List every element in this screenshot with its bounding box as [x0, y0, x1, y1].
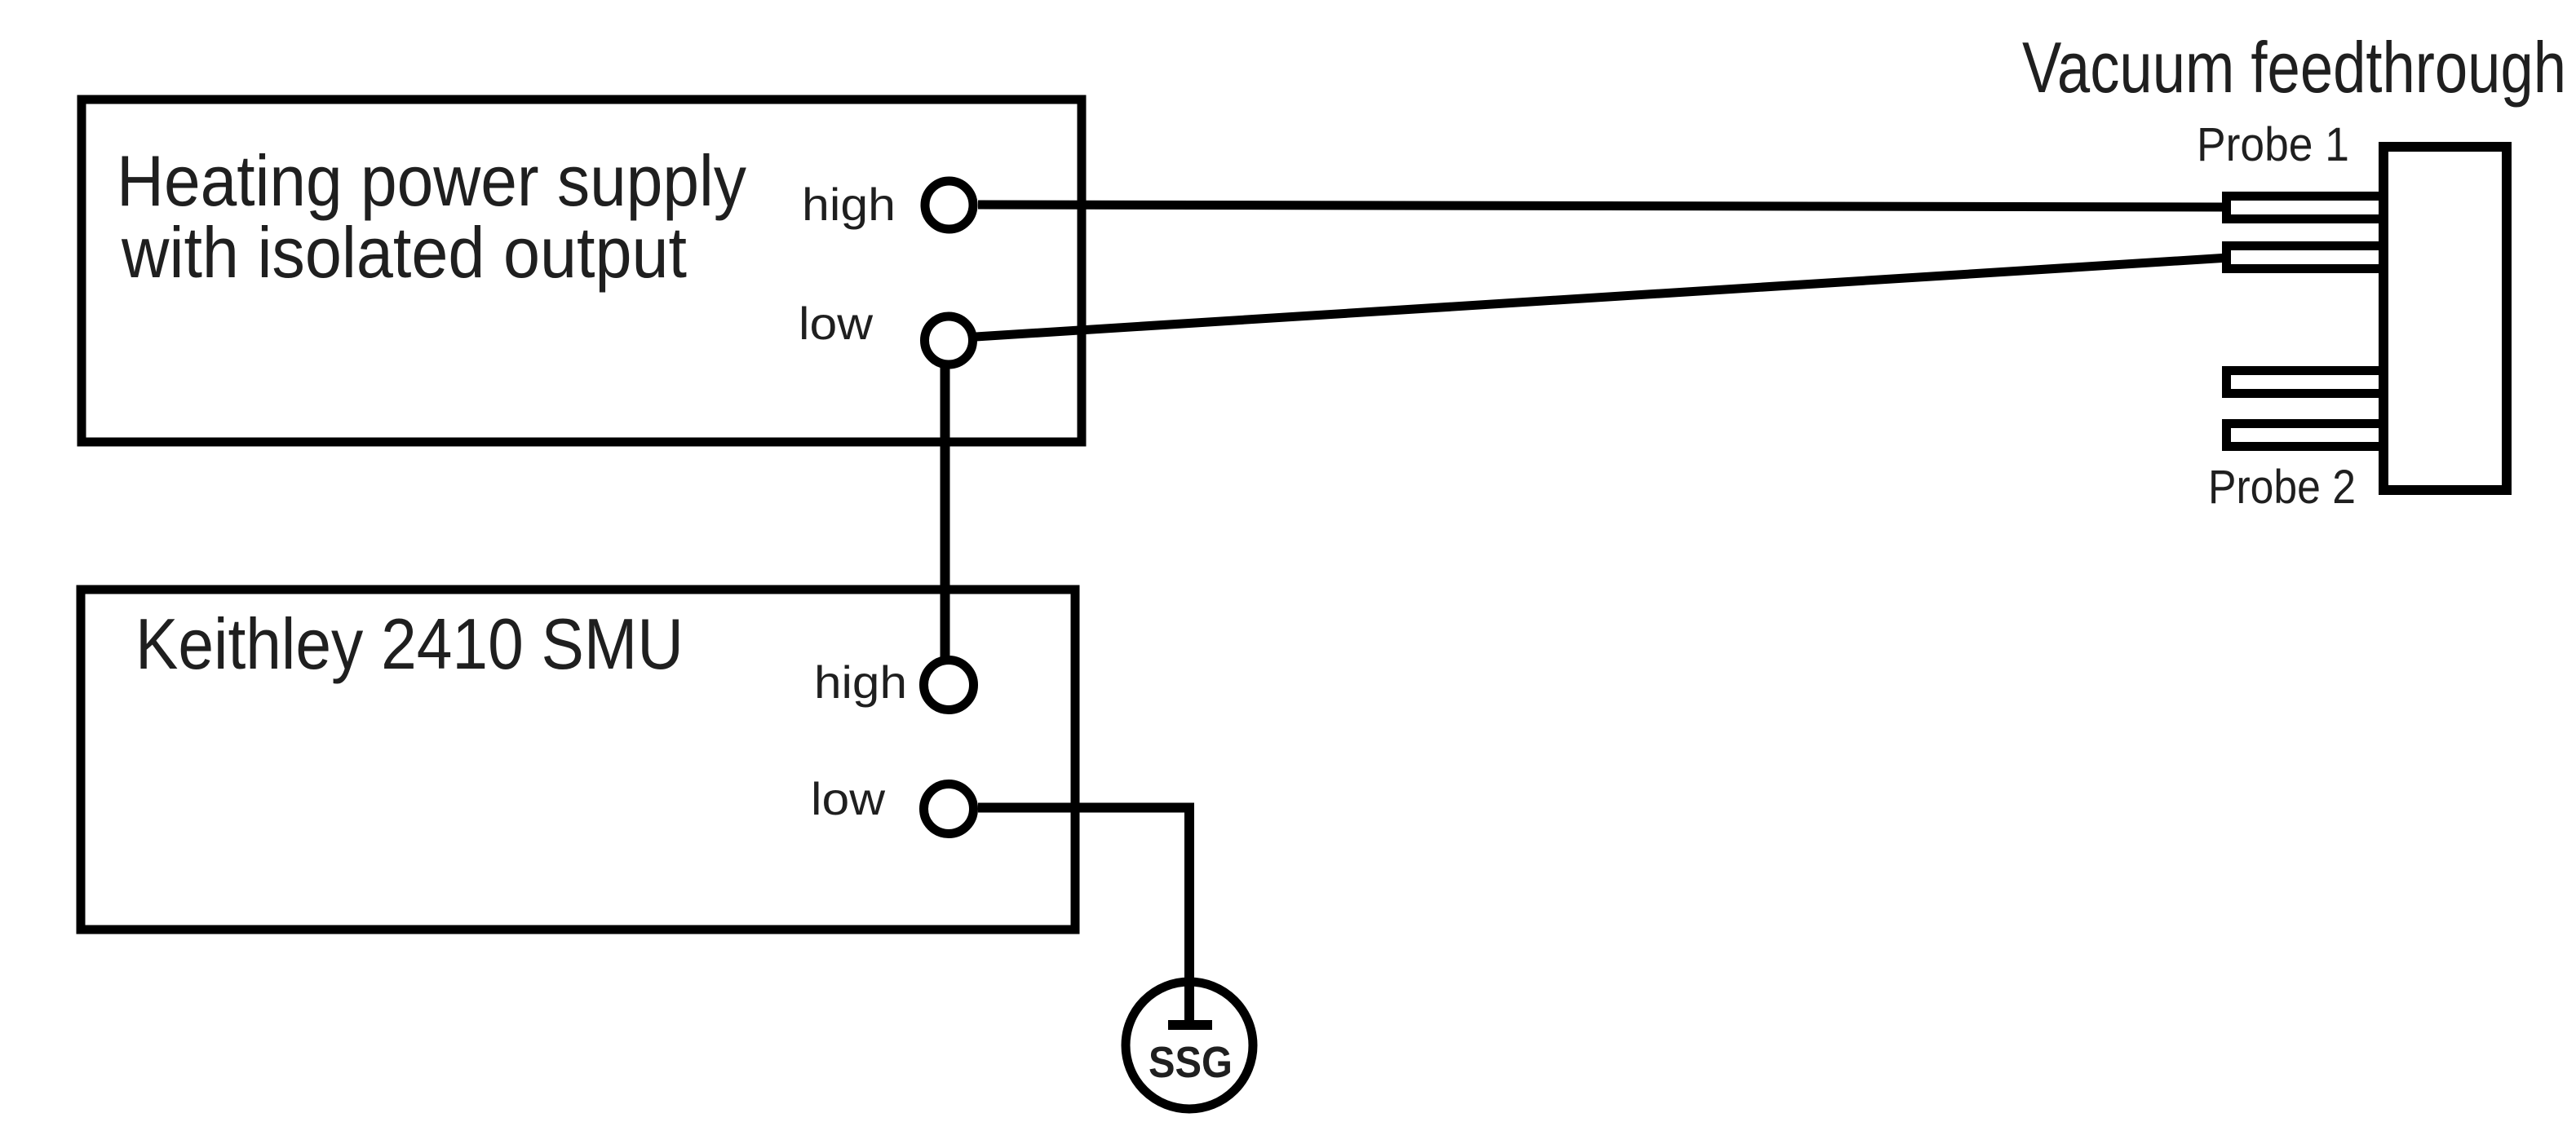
- svg-text:low: low: [811, 773, 886, 824]
- svg-text:SSG: SSG: [1149, 1038, 1233, 1087]
- svg-text:Probe 1: Probe 1: [2197, 118, 2349, 171]
- svg-text:Heating power supply: Heating power supply: [117, 140, 746, 221]
- svg-text:with isolated output: with isolated output: [121, 212, 687, 293]
- svg-text:Vacuum feedthrough: Vacuum feedthrough: [2022, 27, 2566, 108]
- svg-text:high: high: [814, 656, 907, 708]
- svg-text:high: high: [802, 179, 896, 230]
- svg-text:Keithley 2410 SMU: Keithley 2410 SMU: [135, 603, 684, 684]
- svg-text:Probe 2: Probe 2: [2208, 461, 2356, 514]
- svg-text:low: low: [799, 298, 874, 349]
